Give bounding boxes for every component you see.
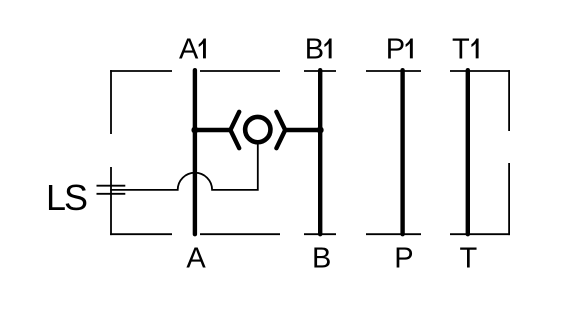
svg-text:A: A bbox=[179, 34, 199, 66]
junction dot on B line bbox=[317, 127, 324, 134]
wire shuttle valve left branch bbox=[195, 128, 230, 132]
svg-text:B: B bbox=[312, 242, 331, 274]
pressure line P1-P bbox=[400, 70, 404, 234]
svg-text:P: P bbox=[394, 242, 413, 274]
enclosure bottom border dash 4 bbox=[366, 233, 421, 235]
enclosure bottom border dash 2 bbox=[200, 233, 280, 235]
svg-text:T: T bbox=[460, 242, 478, 274]
enclosure top border dash 1 bbox=[110, 70, 172, 72]
svg-text:T: T bbox=[452, 34, 470, 66]
enclosure left border dash 2 bbox=[110, 167, 112, 235]
service line A1-A bbox=[193, 70, 197, 234]
shuttle valve ball bbox=[245, 117, 270, 142]
enclosure right border dash 2 bbox=[508, 163, 510, 235]
enclosure top border dash 5 bbox=[450, 70, 510, 72]
enclosure top border dash 4 bbox=[366, 70, 421, 72]
junction dot on A line bbox=[191, 127, 198, 134]
enclosure right border dash 1 bbox=[508, 70, 510, 131]
enclosure top border dash 2 bbox=[200, 70, 280, 72]
shuttle valve right seat chevron bbox=[276, 112, 285, 148]
enclosure left border dash 1 bbox=[110, 70, 112, 134]
svg-text:P: P bbox=[386, 34, 405, 66]
svg-text:LS: LS bbox=[46, 177, 87, 218]
enclosure bottom border dash 3 bbox=[304, 233, 336, 235]
shuttle valve left seat chevron bbox=[230, 112, 239, 148]
service line B1-B bbox=[318, 70, 322, 234]
svg-text:A: A bbox=[186, 242, 206, 274]
enclosure bottom border dash 5 bbox=[450, 233, 510, 235]
wire LS pilot line with bridge over A line bbox=[110, 144, 258, 190]
svg-text:B: B bbox=[305, 34, 324, 66]
LS port tick lower bbox=[97, 193, 126, 195]
tank line T1-T bbox=[466, 70, 470, 234]
enclosure top border dash 3 bbox=[304, 70, 336, 72]
LS port tick upper bbox=[97, 185, 126, 187]
wire shuttle valve right branch bbox=[286, 128, 321, 132]
enclosure bottom border dash 1 bbox=[110, 233, 172, 235]
